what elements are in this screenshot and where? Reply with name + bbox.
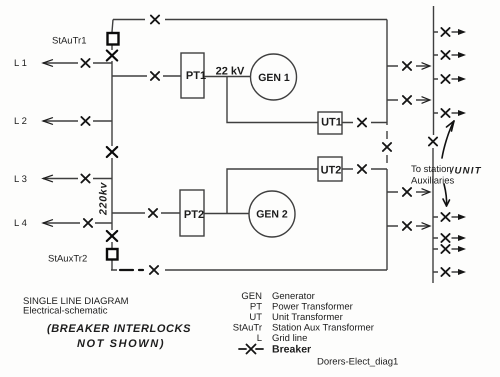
svg-text:22 kV: 22 kV [216,66,245,78]
svg-text:PT: PT [250,302,262,313]
svg-text:GEN 1: GEN 1 [258,72,290,84]
svg-text:GEN 2: GEN 2 [256,209,288,221]
svg-text:UT: UT [249,312,262,323]
svg-text:NOT SHOWN): NOT SHOWN) [77,338,165,350]
svg-text:(BREAKER INTERLOCKS: (BREAKER INTERLOCKS [47,323,191,335]
svg-text:StAuTr1: StAuTr1 [52,36,87,47]
svg-text:Auxiliaries: Auxiliaries [411,176,455,187]
svg-text:Electrical-schematic: Electrical-schematic [23,306,108,317]
svg-text:StAuxTr2: StAuxTr2 [48,254,87,265]
svg-text:StAuTr: StAuTr [233,323,262,334]
svg-text:GEN: GEN [241,291,262,302]
svg-text:PT2: PT2 [184,209,204,221]
svg-text:Generator: Generator [272,291,315,302]
svg-text:L 4: L 4 [14,218,27,229]
svg-text:220kv: 220kv [98,181,110,216]
svg-text:L 3: L 3 [14,174,27,185]
svg-text:Station Aux Transformer: Station Aux Transformer [272,323,374,334]
svg-text:UT1: UT1 [321,117,342,129]
svg-text:Breaker: Breaker [272,344,311,356]
svg-text:To station: To station [411,164,452,175]
svg-text:Power Transformer: Power Transformer [272,302,353,313]
svg-text:Unit Transformer: Unit Transformer [272,312,343,323]
svg-text:L 2: L 2 [14,116,27,127]
svg-text:L: L [257,333,262,344]
svg-text:Grid line: Grid line [272,333,307,344]
svg-text:PT1: PT1 [186,70,206,82]
svg-text:/UNIT: /UNIT [450,166,482,177]
svg-text:UT2: UT2 [321,165,342,177]
svg-text:L 1: L 1 [14,58,27,69]
svg-text:Dorers-Elect_diag1: Dorers-Elect_diag1 [317,357,398,368]
